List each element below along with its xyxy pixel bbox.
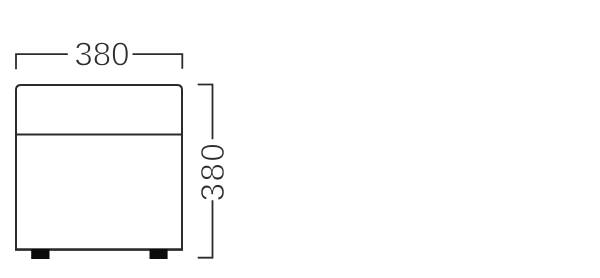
pouf bottom edge — [15, 248, 183, 251]
svg-text:380: 380 — [194, 142, 231, 202]
pouf body outline (rounded top corners, square bottom) — [16, 85, 182, 250]
left foot — [31, 249, 49, 259]
svg-text:380: 380 — [74, 35, 129, 72]
right foot — [150, 249, 168, 259]
height dimension line, top segment with left tick — [198, 85, 213, 140]
height dimension line, bottom segment with left tick — [198, 200, 213, 257]
seat cushion divider line — [17, 134, 181, 136]
width dimension line, left segment with down tick — [16, 54, 68, 69]
width dimension line, right segment with down tick — [133, 54, 183, 69]
